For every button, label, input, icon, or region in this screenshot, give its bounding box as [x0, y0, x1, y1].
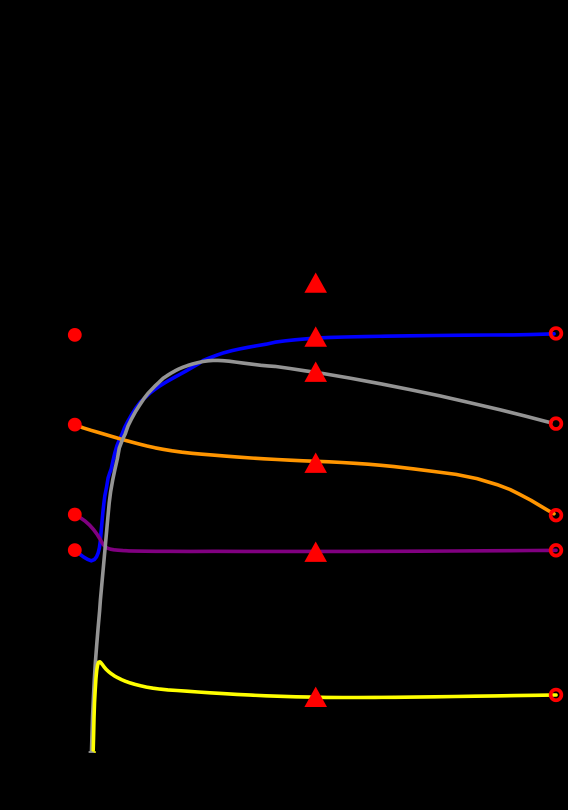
start dot of purple curve — [68, 508, 82, 522]
purple curve — [75, 515, 556, 552]
start dot of blue curve — [68, 543, 82, 557]
end circle of blue curve — [551, 328, 562, 339]
marker triangle on purple curve — [304, 542, 327, 562]
marker triangle on orange curve — [304, 453, 327, 473]
end circle of purple curve — [551, 545, 562, 556]
marker triangle (black series) — [304, 273, 327, 293]
start dot (black series) — [68, 328, 82, 342]
yellow curve end cap — [93, 751, 96, 753]
end circle of orange curve — [551, 510, 562, 521]
gray curve — [92, 360, 552, 750]
orange curve — [75, 425, 554, 514]
end circle of yellow curve — [551, 690, 562, 701]
marker triangle on gray curve — [304, 362, 327, 382]
marker triangle on yellow curve — [304, 687, 327, 707]
yellow curve — [93, 662, 556, 750]
marker triangle on blue curve — [304, 326, 327, 346]
blue curve — [75, 334, 554, 561]
gray curve end cap — [89, 751, 95, 753]
start dot of orange curve — [68, 418, 82, 432]
end circle of gray curve — [551, 418, 562, 429]
